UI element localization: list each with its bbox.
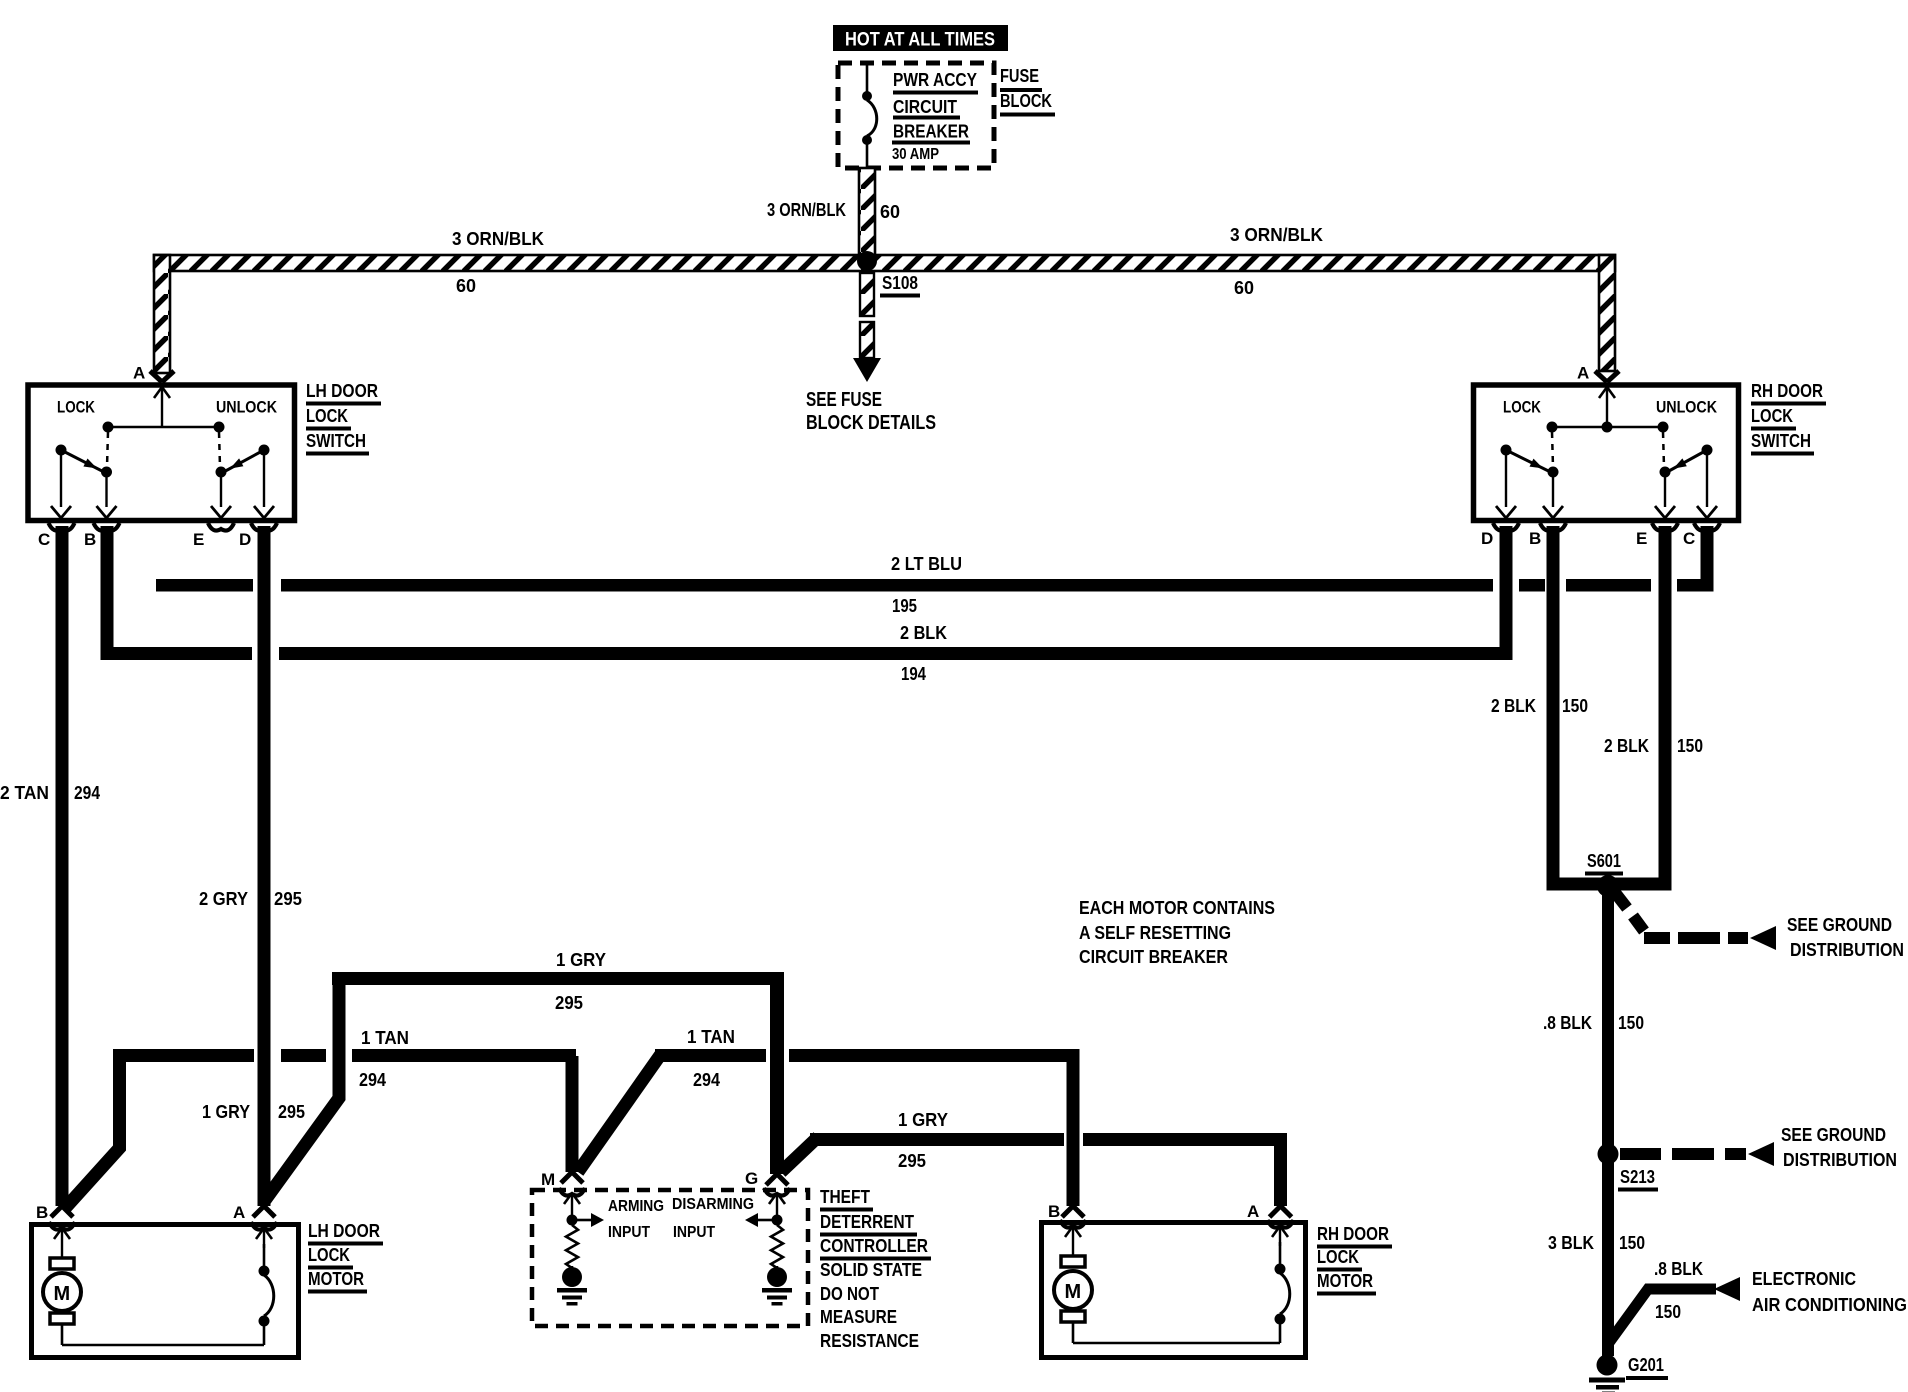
label 1 TAN (left) <box>361 1028 409 1048</box>
svg-text:FUSE: FUSE <box>1000 66 1039 86</box>
wire breaker to S108 hatched <box>859 168 875 255</box>
disarming input arrow <box>745 1193 785 1227</box>
svg-text:CIRCUIT: CIRCUIT <box>893 97 957 117</box>
RH unlock pin C lead <box>1697 455 1717 518</box>
wire hatched drop right to RH A <box>1599 255 1615 371</box>
svg-text:M: M <box>1065 1281 1082 1303</box>
svg-text:LOCK: LOCK <box>306 406 348 426</box>
label 1 GRY (upper) <box>556 950 606 970</box>
wire .8 BLK 150 branch to EAC <box>1608 1277 1740 1344</box>
dashed branch S213 to ground distribution <box>1620 1142 1774 1166</box>
wire 1 TAN 294 left bar segment a <box>113 1049 254 1062</box>
RH unlock lever <box>1668 445 1713 472</box>
svg-text:EACH MOTOR CONTAINS: EACH MOTOR CONTAINS <box>1079 898 1275 918</box>
label PWR ACCY <box>893 70 978 95</box>
svg-text:LOCK: LOCK <box>1751 406 1793 426</box>
svg-text:2 LT BLU: 2 LT BLU <box>891 554 962 574</box>
wire 1 GRY left elbow to LH motor A <box>265 982 340 1201</box>
label 2 LT BLU <box>891 554 962 574</box>
svg-text:BLOCK DETAILS: BLOCK DETAILS <box>806 412 936 434</box>
label LH DOOR LOCK MOTOR <box>308 1221 383 1294</box>
resistor G <box>771 1225 783 1268</box>
svg-text:BREAKER: BREAKER <box>893 122 969 142</box>
connector pin E (LH switch) <box>193 523 234 549</box>
LH door lock switch box <box>28 385 295 521</box>
label 294 (2 TAN) <box>74 783 100 803</box>
label UNLOCK (RH) <box>1656 398 1718 417</box>
svg-text:A SELF RESETTING: A SELF RESETTING <box>1079 923 1231 943</box>
wire 1 TAN 294 right bar segment a <box>655 1049 766 1062</box>
connector pin C (RH switch) <box>1683 523 1720 548</box>
LH lock pin B lead <box>97 477 117 518</box>
label 3 ORN/BLK (left) <box>452 229 544 249</box>
resistor M <box>566 1225 578 1268</box>
svg-text:SEE GROUND: SEE GROUND <box>1787 915 1892 935</box>
label S108 <box>880 273 920 298</box>
svg-text:194: 194 <box>901 664 926 684</box>
svg-text:DISTRIBUTION: DISTRIBUTION <box>1790 940 1904 960</box>
dashed branch S601 to ground distribution <box>1613 890 1776 950</box>
connector pin B (LH motor) <box>36 1203 75 1230</box>
wire 1 GRY right drop to G <box>766 982 788 1185</box>
svg-text:A: A <box>1577 364 1589 383</box>
label 2 TAN <box>0 783 49 803</box>
label 60 (breaker) <box>880 202 900 222</box>
LH switch common bar <box>103 422 225 433</box>
label 2 BLK 150 (E) <box>1604 736 1703 756</box>
svg-text:60: 60 <box>1234 278 1254 298</box>
RH unlock contact dashed <box>1660 432 1671 478</box>
svg-text:UNLOCK: UNLOCK <box>216 398 278 417</box>
wire .8 BLK 150 (S601 to S213) <box>1602 890 1614 1154</box>
svg-text:150: 150 <box>1655 1302 1681 1322</box>
wire RH C drop (to 2 LT BLU) <box>1701 526 1714 592</box>
svg-text:E: E <box>1636 529 1647 548</box>
label 294 (left) <box>359 1070 386 1090</box>
LH motor B arrow <box>54 1228 70 1262</box>
svg-text:3 ORN/BLK: 3 ORN/BLK <box>767 200 846 220</box>
label 295 (2 GRY) <box>274 889 302 909</box>
ground G201 <box>1589 1355 1625 1392</box>
label LOCK (RH) <box>1503 398 1542 417</box>
wire 1 TAN left elbow to LH motor B <box>64 1056 120 1210</box>
svg-text:MOTOR: MOTOR <box>308 1269 364 1289</box>
svg-text:B: B <box>1529 529 1541 548</box>
RH lock pin B lead <box>1543 477 1563 518</box>
svg-text:E: E <box>193 530 204 549</box>
svg-text:LOCK: LOCK <box>1503 398 1542 417</box>
svg-text:2 BLK: 2 BLK <box>1604 736 1649 756</box>
connector pin G (controller) <box>745 1169 790 1196</box>
wire 2 BLK 194 segment a <box>101 647 253 660</box>
label UNLOCK (LH) <box>216 398 278 417</box>
svg-text:M: M <box>541 1170 555 1189</box>
wire 2 LT BLU 195 segment c <box>1519 579 1545 592</box>
svg-text:294: 294 <box>74 783 100 803</box>
svg-text:G: G <box>745 1169 758 1188</box>
connector pin M (controller) <box>541 1170 585 1196</box>
svg-text:.8 BLK: .8 BLK <box>1543 1013 1592 1033</box>
LH lock pin C lead <box>51 455 71 518</box>
wire 2 LT BLU 195 segment e <box>1677 579 1714 592</box>
RH motor breaker <box>1275 1242 1290 1325</box>
wire S108 to fuse-details arrow hatched <box>853 273 881 382</box>
arming input arrow <box>564 1193 604 1227</box>
wire RH D drop (to 2 BLK) <box>1500 526 1513 660</box>
connector pin B (LH switch) <box>84 523 120 549</box>
svg-text:150: 150 <box>1618 1013 1644 1033</box>
label 295 (lower) <box>898 1151 926 1171</box>
RH motor B arrow <box>1065 1226 1081 1260</box>
svg-text:SWITCH: SWITCH <box>306 431 366 451</box>
label ARMING INPUT <box>608 1198 664 1241</box>
connector pin D (RH switch) <box>1481 523 1519 548</box>
svg-text:1 GRY: 1 GRY <box>202 1102 250 1122</box>
LH switch feed arrow <box>154 387 170 427</box>
label S213 <box>1618 1167 1658 1192</box>
svg-text:MEASURE: MEASURE <box>820 1307 897 1327</box>
wire 1 TAN 294 left bar segment b <box>281 1049 326 1062</box>
LH unlock contact dashed <box>216 432 227 478</box>
label 60 (left) <box>456 276 476 296</box>
label 3 BLK 150 <box>1548 1233 1645 1253</box>
svg-text:G201: G201 <box>1628 1355 1664 1375</box>
svg-text:60: 60 <box>456 276 476 296</box>
connector pin A (RH switch) <box>1577 364 1619 383</box>
svg-text:C: C <box>38 530 50 549</box>
label 294 (right) <box>693 1070 720 1090</box>
connector pin C (LH switch) <box>38 523 75 549</box>
svg-text:60: 60 <box>880 202 900 222</box>
label SEE GROUND DISTRIBUTION (S601) <box>1787 915 1904 960</box>
svg-text:DISARMING: DISARMING <box>672 1196 754 1213</box>
svg-text:150: 150 <box>1562 696 1588 716</box>
motor M1 <box>43 1258 81 1345</box>
label 3 ORN/BLK (right) <box>1230 225 1323 245</box>
svg-text:195: 195 <box>892 596 917 616</box>
svg-text:INPUT: INPUT <box>673 1224 715 1241</box>
connector pin B (RH motor) <box>1048 1202 1086 1228</box>
RH motor A arrow <box>1272 1226 1288 1246</box>
wire 1 TAN 294 left bar segment c <box>352 1049 576 1062</box>
wire 1 GRY lower elbow to RH motor A <box>1270 1146 1292 1217</box>
svg-text:30 AMP: 30 AMP <box>892 146 939 163</box>
svg-text:.8 BLK: .8 BLK <box>1654 1259 1703 1279</box>
svg-text:UNLOCK: UNLOCK <box>1656 398 1718 417</box>
label 194 <box>901 664 926 684</box>
RH lock pin D lead <box>1496 455 1516 518</box>
svg-text:DETERRENT: DETERRENT <box>820 1212 914 1232</box>
splice S601 <box>1597 875 1619 897</box>
wire 1 GRY diagonal from G <box>781 1137 818 1172</box>
connector pin A (LH motor) <box>233 1203 277 1230</box>
label LH DOOR LOCK SWITCH <box>306 381 381 456</box>
connector pin A (RH motor) <box>1247 1202 1294 1228</box>
label DISARMING INPUT <box>672 1196 754 1241</box>
svg-text:SEE FUSE: SEE FUSE <box>806 389 882 411</box>
wire 2 GRY 295 (LH D to motor A) <box>253 526 275 1217</box>
wire LH B drop (to 2 BLK) <box>101 526 114 660</box>
LH motor internal wire <box>62 1325 264 1345</box>
label 2 BLK (194) <box>900 623 947 643</box>
svg-text:150: 150 <box>1619 1233 1645 1253</box>
svg-text:DO NOT: DO NOT <box>820 1284 879 1304</box>
wire 2 BLK 150 (RH E to S601) <box>1602 526 1672 891</box>
circuit breaker CB1 symbol <box>862 63 877 168</box>
svg-text:3 BLK: 3 BLK <box>1548 1233 1594 1253</box>
svg-text:294: 294 <box>359 1070 386 1090</box>
label 3 ORN/BLK (breaker) <box>767 200 846 220</box>
label 2 BLK 150 (B) <box>1491 696 1588 716</box>
svg-text:SOLID STATE: SOLID STATE <box>820 1260 922 1280</box>
wire 2 TAN 294 (LH C to motor B) <box>51 526 73 1217</box>
svg-text:295: 295 <box>278 1102 305 1122</box>
wire 2 LT BLU 195 segment a <box>156 579 253 592</box>
splice S213 <box>1598 1144 1619 1165</box>
wire 1 GRY 295 lower bar segment b <box>1083 1133 1287 1146</box>
svg-text:2 TAN: 2 TAN <box>0 783 49 803</box>
label 30 AMP <box>892 146 939 163</box>
connector pin A (LH switch) <box>133 364 174 383</box>
svg-text:A: A <box>133 364 145 383</box>
label G201 <box>1626 1355 1668 1380</box>
svg-text:3 ORN/BLK: 3 ORN/BLK <box>1230 225 1323 245</box>
svg-text:HOT AT ALL TIMES: HOT AT ALL TIMES <box>845 30 995 51</box>
RH lock lever <box>1501 445 1550 472</box>
label 1 GRY (LH motor) <box>202 1102 250 1122</box>
label 195 <box>892 596 917 616</box>
svg-text:2 GRY: 2 GRY <box>199 889 248 909</box>
motor M2 <box>1054 1256 1092 1343</box>
label 295 (LH motor) <box>278 1102 305 1122</box>
svg-text:INPUT: INPUT <box>608 1224 650 1241</box>
RH unlock pin E lead <box>1655 477 1675 518</box>
svg-text:D: D <box>1481 529 1493 548</box>
svg-text:SWITCH: SWITCH <box>1751 431 1811 451</box>
label FUSE BLOCK <box>1000 66 1055 117</box>
label 60 (right) <box>1234 278 1254 298</box>
svg-text:C: C <box>1683 529 1695 548</box>
svg-text:RH DOOR: RH DOOR <box>1317 1224 1389 1244</box>
connector pin B (RH switch) <box>1529 523 1566 548</box>
label 295 (upper) <box>555 993 583 1013</box>
wire 2 BLK 194 segment b <box>279 647 1513 660</box>
wire 1 TAN right elbow to RH motor B <box>1062 1056 1084 1217</box>
label S601 <box>1585 851 1623 876</box>
splice S108 <box>857 251 877 271</box>
RH switch common bar <box>1547 422 1669 433</box>
label 150 (EAC) <box>1655 1302 1681 1322</box>
svg-text:1 TAN: 1 TAN <box>687 1027 735 1047</box>
svg-text:CONTROLLER: CONTROLLER <box>820 1236 928 1256</box>
label SEE FUSE BLOCK DETAILS <box>806 389 936 434</box>
svg-text:LH DOOR: LH DOOR <box>306 381 378 401</box>
svg-text:A: A <box>1247 1202 1259 1221</box>
svg-text:D: D <box>239 530 251 549</box>
label THEFT DETERRENT CONTROLLER SOLID STATE <box>820 1187 931 1351</box>
svg-text:ARMING: ARMING <box>608 1198 664 1215</box>
wire 2 LT BLU 195 segment b <box>281 579 1493 592</box>
RH switch feed arrow <box>1599 387 1615 433</box>
svg-text:LOCK: LOCK <box>57 398 96 417</box>
label CIRCUIT <box>893 97 960 120</box>
svg-text:CIRCUIT BREAKER: CIRCUIT BREAKER <box>1079 947 1228 967</box>
LH unlock lever <box>225 445 270 472</box>
label 1 TAN (right) <box>687 1027 735 1047</box>
svg-text:A: A <box>233 1203 245 1222</box>
svg-text:B: B <box>36 1203 48 1222</box>
LH lock contact dashed <box>101 432 112 478</box>
fuse block dashed box <box>838 63 994 168</box>
LH door lock motor box <box>32 1225 299 1358</box>
wire 1 TAN drop to M <box>561 1056 583 1183</box>
svg-text:LOCK: LOCK <box>1317 1247 1359 1267</box>
svg-text:B: B <box>84 530 96 549</box>
RH door lock switch box <box>1474 385 1739 521</box>
label RH DOOR LOCK MOTOR <box>1317 1224 1392 1296</box>
label HOT AT ALL TIMES <box>833 25 1008 51</box>
label LOCK (LH) <box>57 398 96 417</box>
svg-text:S213: S213 <box>1620 1167 1655 1187</box>
svg-text:THEFT: THEFT <box>820 1187 870 1207</box>
label 1 GRY (lower) <box>898 1110 948 1130</box>
svg-text:PWR ACCY: PWR ACCY <box>893 70 977 90</box>
LH motor breaker <box>259 1244 274 1327</box>
svg-text:LH DOOR: LH DOOR <box>308 1221 380 1241</box>
wire 3 BLK 150 (S213 to G201) <box>1602 1160 1614 1356</box>
svg-text:S108: S108 <box>882 273 918 293</box>
svg-text:B: B <box>1048 1202 1060 1221</box>
wire 2 LT BLU 195 segment d <box>1566 579 1651 592</box>
LH lock lever <box>56 445 104 472</box>
wire hatched bus horizontal <box>154 255 1615 271</box>
label .8 BLK (EAC) <box>1654 1259 1703 1279</box>
svg-text:BLOCK: BLOCK <box>1000 91 1052 111</box>
label BREAKER <box>892 122 970 145</box>
ground G <box>762 1267 792 1306</box>
svg-text:RH DOOR: RH DOOR <box>1751 381 1823 401</box>
connector pin E (RH switch) <box>1636 523 1678 548</box>
svg-text:ELECTRONIC: ELECTRONIC <box>1752 1269 1856 1289</box>
label RH DOOR LOCK SWITCH <box>1751 381 1826 456</box>
label .8 BLK 150 <box>1543 1013 1644 1033</box>
wire 1 GRY 295 lower bar segment a <box>810 1133 1064 1146</box>
svg-text:1 TAN: 1 TAN <box>361 1028 409 1048</box>
wire hatched drop left to LH A <box>154 255 170 373</box>
label ELECTRONIC AIR CONDITIONING <box>1752 1269 1907 1315</box>
LH unlock pin D lead <box>254 455 274 518</box>
connector pin D (LH switch) <box>239 523 277 549</box>
theft deterrent controller dashed box <box>532 1190 808 1326</box>
wire 1 GRY 295 upper bar <box>332 972 784 985</box>
svg-text:150: 150 <box>1677 736 1703 756</box>
RH motor internal wire <box>1073 1323 1280 1343</box>
RH door lock motor box <box>1042 1223 1306 1358</box>
svg-text:1 GRY: 1 GRY <box>556 950 606 970</box>
svg-text:1 GRY: 1 GRY <box>898 1110 948 1130</box>
svg-text:2 BLK: 2 BLK <box>900 623 947 643</box>
RH lock contact dashed <box>1548 432 1559 478</box>
svg-text:3 ORN/BLK: 3 ORN/BLK <box>452 229 544 249</box>
label SEE GROUND DISTRIBUTION (S213) <box>1781 1125 1897 1170</box>
svg-text:295: 295 <box>898 1151 926 1171</box>
svg-text:LOCK: LOCK <box>308 1245 350 1265</box>
svg-text:M: M <box>54 1283 71 1305</box>
svg-text:S601: S601 <box>1587 851 1621 871</box>
svg-text:2 BLK: 2 BLK <box>1491 696 1536 716</box>
svg-text:DISTRIBUTION: DISTRIBUTION <box>1783 1150 1897 1170</box>
svg-text:294: 294 <box>693 1070 720 1090</box>
label 2 GRY <box>199 889 248 909</box>
svg-text:RESISTANCE: RESISTANCE <box>820 1331 919 1351</box>
svg-text:SEE GROUND: SEE GROUND <box>1781 1125 1886 1145</box>
svg-text:AIR CONDITIONING: AIR CONDITIONING <box>1752 1295 1907 1315</box>
wire 1 TAN 294 right bar segment b <box>789 1049 1080 1062</box>
note each motor <box>1079 898 1275 967</box>
svg-text:295: 295 <box>274 889 302 909</box>
wire 2 BLK 150 (RH B to S601) <box>1547 526 1614 891</box>
svg-text:MOTOR: MOTOR <box>1317 1271 1373 1291</box>
wire 1 TAN diagonal from M <box>578 1054 661 1172</box>
ground M <box>557 1267 587 1306</box>
LH motor A arrow <box>256 1228 272 1248</box>
LH unlock pin E lead <box>211 477 231 518</box>
svg-text:295: 295 <box>555 993 583 1013</box>
